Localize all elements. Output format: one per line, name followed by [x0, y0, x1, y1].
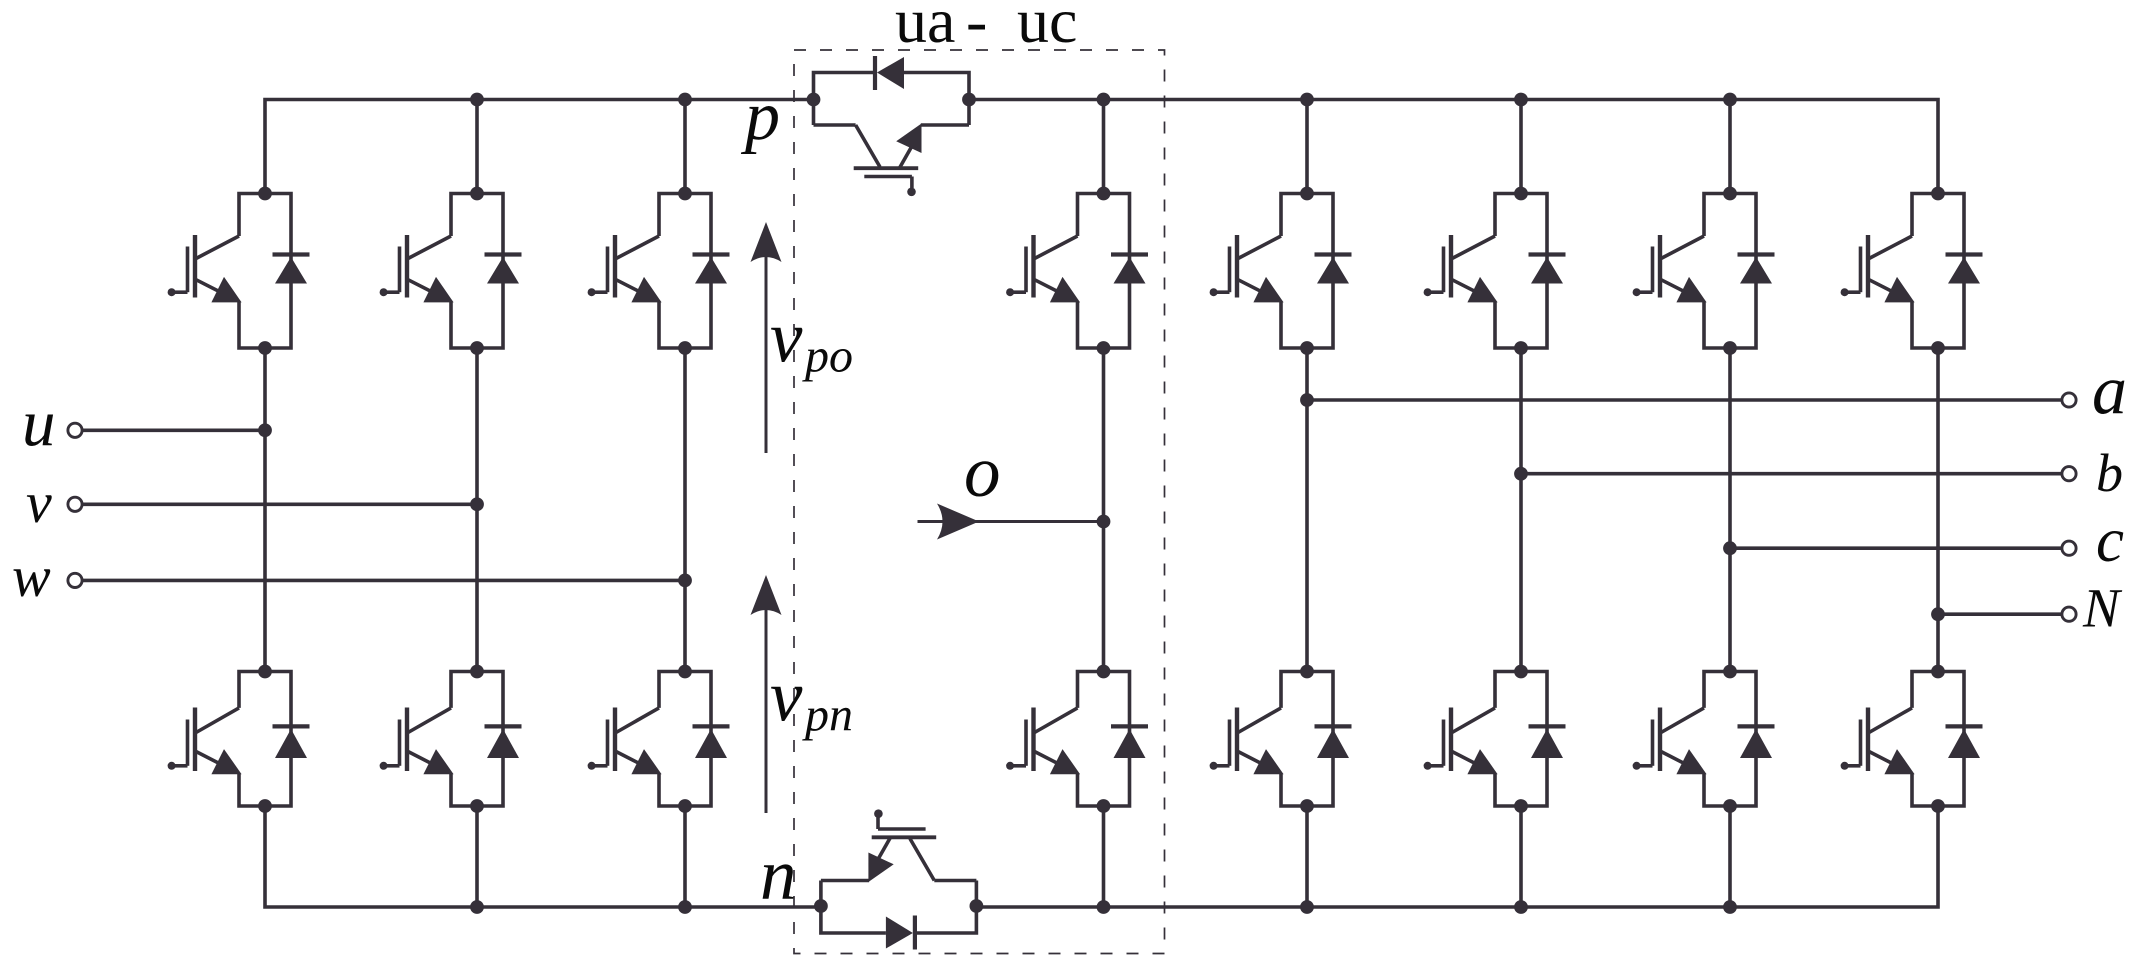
wire: leg4 mid vertical: [1102, 348, 1106, 672]
junction on p rail at leg2: [470, 93, 484, 107]
wire: leg8 mid vertical: [1936, 348, 1940, 672]
wire: leg4 top drop: [1102, 100, 1106, 194]
IGBT+diode switch: inverter leg b bottom: [1424, 665, 1566, 813]
IGBT+diode switch: middle leg o top: [1006, 187, 1148, 355]
node c junction on leg7: [1723, 541, 1737, 555]
wire: leg6 mid vertical: [1519, 348, 1523, 672]
wire: leg5 bottom drop: [1305, 806, 1309, 907]
IGBT+diode switch: rectifier leg u bottom: [168, 665, 310, 813]
IGBT+diode switch: inverter leg a bottom: [1210, 665, 1352, 813]
wire: leg2 top drop: [475, 100, 479, 194]
wire: leg5 top drop: [1305, 100, 1309, 194]
wire: leg7 bottom drop: [1728, 806, 1732, 907]
node o junction on leg4: [1097, 515, 1111, 529]
svg-text:ua-uc: ua-uc: [895, 0, 1077, 56]
junction on n rail at leg7: [1723, 900, 1737, 914]
junction on n rail at leg4: [1097, 900, 1111, 914]
svg-text:n: n: [760, 834, 797, 915]
wire: negative dc rail n (right section): [976, 806, 1938, 907]
node w junction on leg3: [678, 574, 692, 588]
svg-text:b: b: [2096, 443, 2123, 503]
IGBT+diode switch: inverter leg N bottom: [1841, 665, 1983, 813]
junction on p rail at leg5: [1300, 93, 1314, 107]
junction on p rail at leg4: [1097, 93, 1111, 107]
wire: leg3 bottom drop: [683, 806, 687, 907]
IGBT+diode switch: inverter leg b top: [1424, 187, 1566, 355]
svg-text:v: v: [26, 470, 52, 535]
wire: output line c: [1730, 546, 2062, 550]
input terminal w: [68, 573, 82, 587]
arrow to node o: [918, 504, 1104, 540]
wire: leg1 mid vertical: [263, 348, 267, 672]
junction on n rail at leg6: [1514, 900, 1528, 914]
wire: input line v: [82, 502, 477, 506]
output terminal b: [2062, 467, 2076, 481]
node N junction on leg8: [1931, 607, 1945, 621]
IGBT+diode switch: rectifier leg w top: [588, 187, 730, 355]
input terminal u: [68, 423, 82, 437]
IGBT+diode switch: inverter leg c bottom: [1633, 665, 1775, 813]
wire: leg3 mid vertical: [683, 348, 687, 672]
node a junction on leg5: [1300, 393, 1314, 407]
junction on p rail at leg6: [1514, 93, 1528, 107]
output terminal a: [2062, 393, 2076, 407]
wire: input line u: [82, 428, 265, 432]
IGBT+diode switch: inverter leg a top: [1210, 187, 1352, 355]
wire: positive dc rail p (left section): [265, 100, 814, 194]
wire: leg7 top drop: [1728, 100, 1732, 194]
arrow vpn: [751, 575, 782, 813]
junction on p rail at leg3: [678, 93, 692, 107]
input terminal v: [68, 497, 82, 511]
wire: leg4 bottom drop: [1102, 806, 1106, 907]
IGBT+diode switch: rectifier leg v top: [380, 187, 522, 355]
wire: leg7 mid vertical: [1728, 348, 1732, 672]
junction on n rail at leg3: [678, 900, 692, 914]
output terminal c: [2062, 541, 2076, 555]
svg-text:o: o: [964, 431, 1001, 512]
svg-text:a: a: [2092, 353, 2127, 430]
wire: input line w: [82, 579, 685, 583]
IGBT+diode switch: rectifier leg v bottom: [380, 665, 522, 813]
node b junction on leg6: [1514, 467, 1528, 481]
arrow vpo: [751, 222, 782, 453]
wire: leg2 mid vertical: [475, 348, 479, 672]
dashed selection box ua-uc: [794, 50, 1165, 954]
IGBT+diode switch: middle leg o bottom: [1006, 665, 1148, 813]
wire: output line N: [1938, 612, 2062, 616]
reverse-blocking IGBT with series diode on n rail: [814, 809, 983, 949]
svg-text:u: u: [22, 386, 56, 460]
node u junction on leg1: [258, 423, 272, 437]
wire: output line a: [1307, 398, 2062, 402]
wire: output line b: [1521, 472, 2062, 476]
wire: leg5 mid vertical: [1305, 348, 1309, 672]
wire: leg6 bottom drop: [1519, 806, 1523, 907]
svg-text:vpn: vpn: [770, 656, 853, 742]
node v junction on leg2: [470, 497, 484, 511]
wire: leg2 bottom drop: [475, 806, 479, 907]
junction on n rail at leg5: [1300, 900, 1314, 914]
wire: leg3 top drop: [683, 100, 687, 194]
wire: negative dc rail n (left section): [265, 806, 821, 907]
wire: positive dc rail p (right section): [969, 100, 1938, 194]
IGBT+diode switch: inverter leg N top: [1841, 187, 1983, 355]
IGBT+diode switch: rectifier leg w bottom: [588, 665, 730, 813]
IGBT+diode switch: rectifier leg u top: [168, 187, 310, 355]
output terminal N: [2062, 607, 2076, 621]
junction on n rail at leg2: [470, 900, 484, 914]
svg-text:vpo: vpo: [770, 297, 853, 383]
IGBT+diode switch: inverter leg c top: [1633, 187, 1775, 355]
svg-text:N: N: [2082, 578, 2123, 639]
svg-text:p: p: [740, 78, 780, 155]
svg-text:w: w: [12, 544, 51, 609]
reverse-blocking IGBT with series diode on p rail: [807, 56, 976, 196]
svg-text:c: c: [2096, 505, 2124, 575]
wire: leg6 top drop: [1519, 100, 1523, 194]
junction on p rail at leg7: [1723, 93, 1737, 107]
